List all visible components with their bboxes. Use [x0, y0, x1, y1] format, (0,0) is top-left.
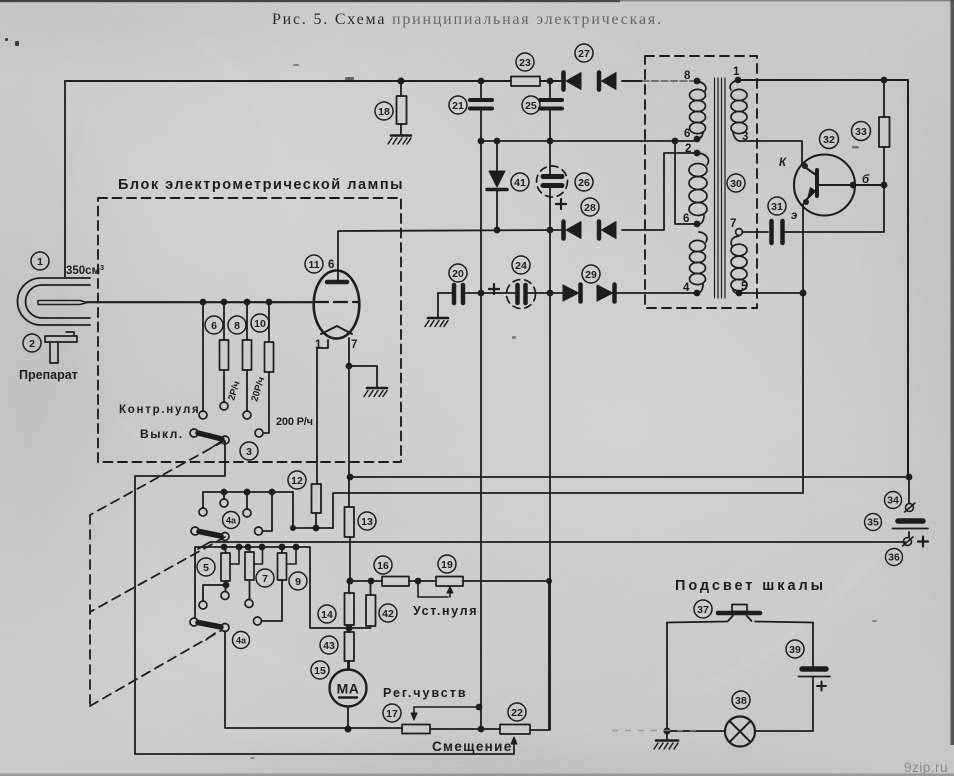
svg-text:3: 3	[742, 131, 748, 143]
capacitor C25	[540, 100, 562, 109]
label bias	[432, 739, 512, 754]
watermark	[904, 760, 948, 775]
resistor R8	[243, 302, 252, 411]
ref 25	[522, 96, 540, 114]
wire R13 bottom to meter row	[349, 537, 351, 581]
ref 13	[358, 512, 376, 530]
svg-text:15: 15	[314, 665, 326, 677]
wire low AC row y293	[438, 292, 697, 294]
wire y493 from R12 jog to emitter column	[333, 493, 803, 528]
label block electrometric lamp	[118, 177, 404, 193]
ref 29	[582, 265, 600, 283]
battery 39	[799, 669, 831, 677]
label 200R/h	[276, 416, 313, 428]
svg-text:Выкл.: Выкл.	[140, 427, 183, 441]
label 350cm3	[66, 265, 104, 277]
svg-text:12: 12	[291, 475, 303, 487]
wire emitter column x803 down to y493	[802, 204, 804, 493]
svg-text:7: 7	[262, 573, 268, 585]
svg-text:43: 43	[323, 640, 335, 652]
transformer winding 6-4	[690, 232, 707, 293]
pin labels transformer	[683, 66, 748, 294]
svg-text:Подсвет шкалы: Подсвет шкалы	[675, 578, 825, 594]
ionization chamber 1 outer electrode	[17, 278, 90, 325]
ref 38	[732, 691, 750, 709]
ref 41	[511, 173, 529, 191]
potentiometer R17	[402, 707, 479, 734]
transistor Q32	[794, 155, 884, 216]
svg-text:Рис. 5. Схема принципиальная э: Рис. 5. Схема принципиальная электрическ…	[272, 11, 662, 28]
transformer core	[715, 78, 726, 298]
ref 12	[288, 471, 306, 489]
transformer winding 2-6	[689, 153, 708, 224]
svg-text:2: 2	[685, 143, 691, 155]
contact zero-check	[199, 411, 207, 419]
resistor R42	[349, 581, 376, 628]
contact R8	[243, 411, 251, 419]
resistor R13	[345, 507, 355, 537]
wire cap25/cap26 column x550	[549, 81, 551, 730]
svg-text:6: 6	[328, 259, 334, 271]
ground R18	[388, 136, 411, 145]
wire tube pin1 to R12	[317, 340, 328, 484]
wire faint segment diodes27 to terminal 8	[642, 80, 694, 82]
svg-text:11: 11	[308, 259, 319, 271]
resistor R14	[345, 581, 355, 628]
ground C20	[425, 318, 448, 327]
svg-text:22: 22	[511, 707, 523, 719]
svg-text:34: 34	[887, 495, 899, 507]
contact R7	[245, 600, 253, 608]
capacitor C26 electrolytic	[537, 166, 568, 197]
label zero check	[119, 404, 199, 416]
svg-text:К: К	[779, 157, 787, 169]
dashed mechanical link switch gang	[90, 441, 225, 706]
switch 4a lower arm	[190, 618, 229, 640]
capacitor C21	[470, 100, 492, 109]
transformer winding 8-6	[690, 81, 706, 139]
ground lamp circuit	[654, 731, 678, 749]
wire cap20 to ground	[437, 293, 439, 317]
ref 7	[256, 569, 274, 587]
contacts R5	[199, 592, 229, 610]
switch 4a lower contact bus	[195, 547, 349, 628]
wire zero-check contact drop	[202, 302, 204, 411]
contact R9	[254, 617, 262, 625]
jack 34	[905, 503, 916, 512]
svg-text:27: 27	[578, 48, 590, 60]
ref 32	[820, 130, 839, 149]
svg-text:42: 42	[382, 608, 394, 620]
svg-text:Препарат: Препарат	[19, 368, 79, 382]
wire bottom bus y754	[135, 748, 514, 754]
ref 43	[320, 636, 338, 654]
ref 18	[375, 102, 393, 120]
ref 15	[311, 661, 329, 679]
svg-text:4а: 4а	[236, 636, 247, 646]
svg-text:23: 23	[519, 57, 531, 69]
labels transistor electrodes	[779, 157, 870, 222]
ref 14	[318, 605, 336, 623]
capacitor C31	[772, 221, 783, 243]
svg-text:6: 6	[211, 320, 217, 332]
ref 39	[786, 640, 804, 658]
ref 4a upper	[223, 512, 240, 529]
svg-text:Контр.нуля: Контр.нуля	[119, 404, 199, 416]
ref 24	[512, 256, 530, 274]
label 20R/h	[249, 376, 267, 403]
svg-text:5: 5	[741, 281, 748, 293]
ref 26	[575, 173, 593, 191]
svg-text:24: 24	[515, 260, 527, 272]
ref 27	[575, 44, 593, 62]
svg-text:4а: 4а	[226, 516, 237, 526]
svg-text:350см3: 350см3	[66, 265, 104, 277]
switch 4a upper contact bus	[203, 492, 293, 531]
tube 11 anode bar pin6	[327, 271, 347, 282]
diode D29a	[563, 285, 581, 302]
dashed box electrometric lamp block	[98, 198, 401, 462]
contact R6	[220, 402, 228, 410]
svg-text:31: 31	[771, 201, 783, 213]
ionization chamber 1 inner electrode rod	[38, 301, 314, 305]
specimen holder 2	[45, 332, 77, 363]
switch 4a upper arm	[191, 527, 229, 542]
ref 23	[516, 53, 534, 71]
wire pin7 ground jog	[349, 366, 377, 387]
svg-text:28: 28	[584, 202, 596, 214]
title	[272, 11, 662, 28]
wire switch3 pivot to left column	[135, 441, 225, 754]
contact R10	[255, 429, 263, 437]
battery 35	[893, 521, 929, 529]
svg-text:25: 25	[525, 100, 537, 112]
svg-text:200 Р/ч: 200 Р/ч	[276, 416, 313, 428]
wire y477 from R13 top to right battery column	[350, 476, 909, 478]
svg-text:э: э	[791, 210, 797, 222]
svg-text:Рег.чувств: Рег.чувств	[383, 686, 466, 700]
svg-text:36: 36	[888, 552, 900, 564]
svg-text:5: 5	[203, 562, 209, 574]
ref 36	[886, 549, 903, 566]
svg-text:Уст.нуля: Уст.нуля	[413, 604, 477, 618]
label off	[140, 427, 183, 441]
resistor R23	[511, 77, 540, 87]
resistor R10	[264, 302, 274, 433]
resistor R9	[262, 547, 296, 621]
label specimen	[19, 368, 79, 382]
resistor R16	[382, 577, 409, 587]
label 2R/h	[226, 380, 242, 402]
tube 11 envelope	[314, 271, 360, 339]
diode D41 zener	[487, 141, 507, 230]
ref 5	[197, 558, 215, 576]
wire left feed to chamber	[64, 81, 66, 277]
svg-text:3: 3	[246, 446, 252, 458]
transformer winding 7-5	[731, 236, 747, 293]
transformer T30 dashed box	[645, 56, 757, 308]
svg-text:Блок электрометрической лампы: Блок электрометрической лампы	[118, 177, 404, 193]
wire junction y141 to terminal 6b	[675, 141, 697, 224]
wire R12 bottom row y528	[293, 492, 333, 528]
svg-text:8: 8	[684, 70, 691, 82]
ref 35	[865, 514, 882, 531]
ref 22	[508, 703, 526, 721]
meter MA label	[337, 681, 360, 697]
wire tube anode to diodes28 y231	[338, 230, 563, 271]
diode D27a	[564, 73, 582, 90]
tube 11 grid dashed	[315, 301, 359, 303]
resistor R33	[879, 80, 890, 185]
node terminal 7	[736, 229, 743, 236]
wire right column battery drop x909	[908, 477, 910, 537]
ref 34	[885, 492, 902, 509]
diode D28b	[599, 222, 616, 239]
capacitor C24 electrolytic	[507, 280, 536, 309]
ref 30	[727, 174, 745, 192]
svg-text:10: 10	[254, 318, 266, 330]
lamp switch 37	[718, 605, 760, 622]
svg-text:7: 7	[351, 339, 357, 351]
contacts 4a upper	[199, 499, 263, 535]
jack 36	[903, 537, 914, 546]
svg-text:4: 4	[683, 282, 690, 294]
svg-text:29: 29	[585, 269, 597, 281]
resistor R7	[245, 547, 263, 599]
svg-text:1: 1	[733, 66, 740, 78]
svg-text:1: 1	[37, 256, 43, 268]
ref 1	[31, 252, 49, 270]
wire top HT bus y81	[65, 80, 642, 82]
wire tube pin7 down to R13	[348, 338, 350, 507]
svg-text:41: 41	[514, 177, 526, 189]
capacitor C20	[454, 285, 463, 303]
svg-text:14: 14	[321, 609, 333, 621]
svg-text:13: 13	[361, 516, 373, 528]
svg-text:7: 7	[730, 218, 736, 230]
diode D27b	[599, 73, 616, 90]
resistor R5	[203, 547, 239, 601]
potentiometer R22	[500, 725, 530, 749]
switch 3 arm	[190, 429, 229, 448]
svg-text:2: 2	[29, 338, 35, 350]
meter MA 15	[330, 661, 367, 729]
wire grid bus y302	[87, 301, 314, 303]
wire terminal 3 to collector	[739, 141, 802, 165]
plus battery 35	[918, 537, 928, 547]
ref 31	[768, 197, 786, 215]
svg-text:33: 33	[855, 126, 867, 138]
ref 3	[240, 442, 258, 460]
lamp 38	[725, 717, 755, 747]
ref 8	[228, 316, 246, 334]
svg-text:32: 32	[823, 134, 835, 146]
wire zero-set row y581	[350, 580, 549, 582]
svg-text:1: 1	[315, 339, 322, 351]
svg-text:19: 19	[441, 559, 453, 571]
svg-text:35: 35	[867, 517, 879, 529]
diode D29b	[597, 285, 615, 302]
ref 10	[251, 314, 269, 332]
svg-text:18: 18	[378, 106, 390, 118]
resistor R43	[345, 628, 355, 670]
svg-text:26: 26	[578, 177, 590, 189]
svg-text:МА: МА	[337, 681, 360, 697]
resistor R12	[312, 484, 322, 513]
plus label C26	[556, 199, 566, 209]
svg-text:9: 9	[295, 576, 301, 588]
resistor R6	[220, 302, 229, 402]
ref 16	[374, 556, 392, 574]
svg-text:б: б	[862, 174, 870, 186]
wire diodes28 out to terminal 2	[622, 153, 697, 230]
ground pin7	[364, 388, 387, 397]
label set zero	[413, 604, 477, 618]
svg-text:37: 37	[697, 604, 709, 616]
ref 4a lower	[233, 632, 250, 649]
svg-text:6: 6	[684, 128, 690, 140]
plus label C24	[489, 284, 499, 294]
ref 2	[23, 334, 41, 352]
ref 28	[581, 198, 599, 216]
svg-text:30: 30	[730, 178, 742, 190]
potentiometer R19	[418, 577, 463, 598]
svg-text:39: 39	[789, 644, 801, 656]
svg-text:16: 16	[377, 560, 389, 572]
ref 21	[449, 96, 467, 114]
ref 42	[379, 604, 397, 622]
svg-text:17: 17	[386, 708, 398, 720]
ref 37	[694, 600, 712, 618]
svg-text:8: 8	[234, 320, 240, 332]
svg-text:6: 6	[683, 213, 689, 225]
wire y542 long bias wire to battery plus	[198, 542, 905, 549]
resistor R18	[397, 81, 407, 135]
ref 33	[852, 122, 871, 141]
plus battery 39	[817, 682, 826, 691]
ref 9	[289, 572, 307, 590]
wire faint erased segment R22 to lamp ground	[612, 730, 700, 732]
wire meter row y729	[225, 581, 549, 730]
wire rectifier mid bus y141	[481, 140, 697, 142]
label sens adjust	[383, 686, 466, 700]
ref 11	[305, 255, 323, 273]
wire cap31 to base column	[785, 185, 884, 232]
transformer winding 1-3	[730, 80, 747, 141]
label scale light	[675, 578, 825, 594]
ref 6	[205, 316, 223, 334]
ref 19	[438, 555, 456, 573]
wire terminal 7 to cap31	[742, 231, 768, 233]
wire terminal 5 to emitter junction	[739, 292, 803, 294]
ref 20	[449, 264, 467, 282]
tube 11 cathode	[321, 326, 352, 334]
pin labels tube	[315, 259, 357, 351]
wire top right from terminal 1 to R33 and right edge	[738, 80, 908, 477]
diode D28a	[564, 222, 582, 239]
svg-text:20: 20	[452, 268, 464, 280]
svg-text:21: 21	[452, 100, 464, 112]
lamp circuit loop wires	[667, 622, 813, 732]
svg-text:9zip.ru: 9zip.ru	[904, 760, 948, 775]
ref 17	[383, 704, 401, 722]
svg-text:38: 38	[735, 695, 747, 707]
wire cap21/cap24 column x481	[480, 81, 482, 729]
svg-text:Смещение: Смещение	[432, 739, 512, 754]
